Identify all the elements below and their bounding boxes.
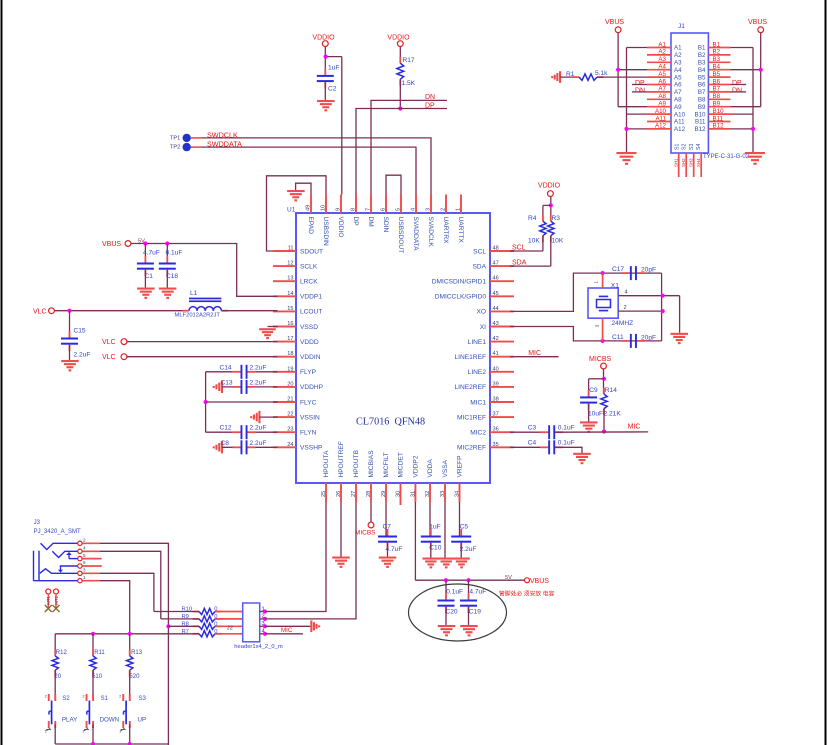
svg-text:VDDA: VDDA [427, 459, 434, 478]
svg-text:C3: C3 [528, 425, 537, 432]
connector J3 designator [34, 520, 81, 535]
capacitor C9 10uF [580, 387, 603, 418]
resistor R11 510 [90, 649, 106, 680]
svg-text:SCL: SCL [512, 245, 526, 252]
wire C1 to ground [144, 270, 146, 288]
svg-text:VDDIO: VDDIO [337, 217, 344, 238]
svg-text:SCLK: SCLK [300, 263, 318, 270]
power port MICBS [589, 356, 612, 369]
svg-text:3: 3 [83, 568, 86, 573]
power port VBUS (rail) [525, 578, 550, 585]
junction A4/VBUS [616, 68, 620, 72]
highlight ellipse around C19 C20 [409, 584, 507, 641]
svg-text:34: 34 [455, 491, 461, 497]
svg-text:L1: L1 [190, 290, 198, 297]
svg-text:CL7016 QFN48: CL7016 QFN48 [356, 417, 425, 428]
connector J1 part text TYPE-C-31-G-02 [703, 154, 750, 160]
svg-text:5: 5 [83, 553, 86, 558]
svg-text:B10: B10 [694, 111, 706, 118]
wire J3 pin1 stub [83, 580, 101, 582]
wire jack pin1 to rail [100, 581, 130, 634]
ground (C20) [438, 625, 456, 636]
wire pin 26 to ground [340, 502, 342, 557]
junction C19/rail [466, 578, 470, 582]
svg-text:B12: B12 [694, 126, 706, 133]
ground (C7) [379, 557, 397, 568]
wire MIC2 to C3 [510, 431, 548, 433]
svg-text:DP: DP [352, 217, 359, 227]
svg-text:24: 24 [287, 442, 293, 448]
wire C18 stem [166, 244, 168, 264]
svg-text:4.7uF: 4.7uF [469, 588, 486, 595]
net label SCL [512, 245, 526, 252]
svg-text:A10: A10 [655, 108, 667, 115]
svg-text:1: 1 [45, 730, 47, 734]
svg-text:VDDP2: VDDP2 [413, 455, 420, 477]
chip bottom pins 25-34 with numbers and names [321, 441, 464, 502]
svg-text:VDDIO: VDDIO [538, 183, 561, 190]
wire XO to crystal loop [510, 273, 662, 311]
wire jack pin2 to gnd column [100, 543, 168, 626]
ground (C13) [213, 381, 223, 393]
junction VDDIO/pin9 [324, 55, 328, 59]
svg-text:A11: A11 [655, 115, 666, 122]
connector J3 jack body [34, 551, 78, 581]
wire pin5-pin6 link [386, 175, 401, 194]
svg-text:A12: A12 [655, 123, 667, 130]
capacitor C5 2.2uF [451, 524, 476, 554]
wire A1-A10-A12 ground bus [627, 48, 648, 153]
svg-text:R17: R17 [403, 57, 415, 64]
wire jack pin3 to R10 [100, 573, 154, 611]
svg-text:10K: 10K [552, 238, 564, 245]
net label 5V [138, 239, 145, 245]
svg-text:2: 2 [83, 538, 86, 543]
wire R9 row [161, 618, 199, 620]
svg-text:14: 14 [287, 291, 293, 297]
wire C20 to ground [445, 607, 447, 626]
net label DP (J1 left) [635, 80, 645, 87]
svg-text:DP: DP [732, 80, 742, 87]
svg-text:B12: B12 [713, 123, 725, 130]
svg-text:B5: B5 [698, 74, 706, 81]
junction B12/gnd bus [751, 127, 755, 131]
svg-text:S4: S4 [696, 144, 702, 150]
svg-text:1uF: 1uF [328, 65, 339, 72]
wire A6 DP [632, 84, 647, 86]
wire C1 stem [144, 244, 146, 264]
junction MICBS/C9 [602, 377, 606, 381]
resistor R12 20 [52, 649, 67, 680]
svg-text:HPOUTA: HPOUTA [323, 450, 330, 478]
wire LINE1REF [510, 356, 559, 358]
svg-text:DM: DM [367, 217, 374, 227]
wire C20 stem [445, 580, 447, 600]
svg-text:2.2uF: 2.2uF [460, 546, 477, 553]
svg-text:MICBS: MICBS [589, 356, 612, 363]
wire pin 9 VDDIO drop [341, 57, 343, 195]
wire R17 to DP [399, 79, 401, 108]
svg-text:SDA: SDA [472, 263, 486, 270]
connector J1 inside pin names A1-A12 B1-B12 S1-S4 [674, 45, 706, 150]
ground (C10) [423, 558, 440, 569]
svg-text:DP: DP [635, 80, 645, 87]
svg-text:B11: B11 [695, 119, 706, 126]
svg-text:MIC: MIC [628, 424, 641, 431]
ground (C5) [453, 558, 470, 569]
svg-text:HPOUTB: HPOUTB [353, 449, 360, 477]
capacitor C7 4.7uF [378, 524, 402, 554]
svg-text:5: 5 [396, 208, 402, 211]
junction C1/5V [143, 241, 147, 245]
svg-text:1uF: 1uF [429, 523, 440, 530]
connector J3 contact (pin4) with switch arrow [52, 551, 77, 558]
svg-text:9: 9 [336, 208, 342, 211]
wire J2 pin4 MIC stub [265, 633, 303, 635]
svg-text:17: 17 [287, 336, 293, 342]
svg-text:管脚处必 须安放 电容: 管脚处必 须安放 电容 [499, 590, 555, 598]
wire C9 to ground [588, 404, 590, 422]
wire J3 pin4 stub [83, 550, 101, 552]
power port VLC (main) [33, 308, 54, 315]
svg-text:2.21K: 2.21K [604, 411, 622, 418]
wire C12 row [206, 431, 278, 433]
net label 5V (rail) [505, 575, 512, 581]
net label SDA [512, 260, 527, 267]
wire C4 to ground [555, 447, 582, 453]
power port VLC (pin18) [102, 354, 127, 361]
wire B6 DP [731, 84, 747, 86]
svg-text:A2: A2 [658, 49, 666, 56]
svg-text:A8: A8 [658, 93, 666, 100]
svg-text:10uF: 10uF [588, 411, 603, 418]
power port VBUS (J1 left) [605, 19, 624, 33]
svg-text:VREFP: VREFP [457, 455, 464, 478]
wire MIC2REF to C4 [510, 446, 548, 448]
svg-text:LINE2REF: LINE2REF [454, 384, 486, 391]
wire J2 pin3 to ground [265, 625, 310, 627]
svg-text:B6: B6 [713, 78, 721, 85]
wire VBUS-A4-A9 [618, 33, 647, 107]
net label MIC (LINE1REF) [528, 350, 541, 357]
ground (C19) [460, 625, 478, 636]
wire SWDCLK [191, 138, 431, 195]
wire L1 to pin 15 [221, 310, 277, 312]
svg-text:1.5K: 1.5K [402, 80, 416, 87]
wire VDDIO to C2 [325, 47, 342, 76]
capacitor C15 2.2uF [61, 328, 90, 359]
power port VLC (pin17) [102, 339, 127, 346]
svg-text:45: 45 [493, 291, 499, 297]
power port VBUS (J1 right) [748, 19, 767, 33]
connector J2 header1x4 [227, 603, 283, 650]
svg-text:B3: B3 [713, 56, 721, 63]
junction crystal bottom [601, 339, 605, 343]
svg-text:VLC: VLC [102, 354, 116, 361]
wire R10 row [154, 611, 199, 613]
junction R17/DP [398, 106, 402, 110]
svg-text:J2: J2 [227, 625, 233, 631]
svg-text:4: 4 [83, 546, 86, 551]
crystal X1 24MHZ [588, 273, 633, 341]
op-amp U1 CL7016 chip body [287, 207, 490, 484]
svg-text:31: 31 [410, 491, 416, 497]
switch S2 PLAY [45, 670, 78, 744]
wire crystal pin 2 [618, 305, 662, 311]
connector J3 contact (pin6) with switch arrow [58, 566, 78, 573]
wire pin 30 stub end [400, 502, 402, 505]
svg-text:MIC2REF: MIC2REF [457, 445, 486, 452]
svg-text:LINE2: LINE2 [468, 369, 487, 376]
wire VLC to pin 18 [127, 356, 278, 358]
svg-text:VSSD: VSSD [300, 324, 318, 331]
ground (C8) [213, 441, 223, 453]
svg-text:S1: S1 [675, 144, 681, 150]
net label SWDDATA [207, 140, 242, 149]
svg-text:C20: C20 [446, 609, 458, 616]
capacitor C4 0.1uF [528, 440, 575, 455]
svg-text:A8: A8 [674, 97, 682, 104]
svg-text:HPOUTREF: HPOUTREF [338, 441, 345, 477]
svg-text:S1: S1 [101, 696, 109, 702]
switch S3 UP [119, 670, 146, 744]
junction C18/5V [165, 241, 169, 245]
svg-text:1: 1 [593, 281, 598, 284]
wire pin22 stub [260, 416, 278, 418]
svg-text:TP2: TP2 [170, 145, 180, 151]
wire VDDIO to R17 [399, 47, 401, 64]
svg-text:MICDET: MICDET [398, 452, 405, 477]
svg-text:33: 33 [440, 491, 446, 497]
svg-text:48: 48 [493, 246, 499, 252]
svg-text:37: 37 [493, 412, 499, 418]
svg-text:510: 510 [92, 674, 103, 680]
svg-text:C13: C13 [221, 379, 233, 386]
svg-text:MICFILT: MICFILT [383, 452, 390, 477]
svg-text:5V: 5V [505, 575, 512, 581]
wire XI to crystal loop [510, 327, 662, 341]
wire C15 stem [69, 311, 71, 339]
svg-text:6: 6 [83, 560, 86, 565]
wire C13 row [222, 386, 278, 388]
svg-text:TYPE-C-31-G-02: TYPE-C-31-G-02 [703, 154, 750, 160]
svg-text:B4: B4 [698, 67, 706, 74]
svg-text:47: 47 [493, 261, 499, 267]
resistor R13 520 [126, 649, 142, 680]
svg-text:VSSA: VSSA [442, 459, 449, 477]
svg-text:B10: B10 [713, 108, 725, 115]
resistor R4 10K [528, 215, 546, 245]
junction rail/R13/jack pin1 [128, 632, 132, 636]
wire C2 to ground [324, 82, 326, 100]
svg-text:B6: B6 [698, 82, 706, 89]
svg-text:0.1uF: 0.1uF [166, 250, 183, 257]
svg-text:SDA: SDA [512, 260, 527, 267]
svg-text:MT1: MT1 [46, 595, 51, 604]
svg-text:VBUS: VBUS [102, 241, 121, 248]
svg-text:C19: C19 [469, 609, 481, 616]
svg-text:SH1: SH1 [674, 158, 679, 167]
wire J3 pin6 stub [83, 565, 102, 567]
svg-text:0.1uF: 0.1uF [558, 440, 575, 447]
ground (pin33) [438, 558, 455, 569]
svg-text:S2: S2 [682, 144, 688, 150]
wire VLC to L1 [55, 310, 190, 312]
svg-text:R4: R4 [528, 215, 537, 222]
svg-text:SDOUT: SDOUT [300, 248, 323, 255]
svg-text:J1: J1 [678, 23, 685, 30]
connector J1 outside pin stubs and labels [647, 41, 731, 129]
svg-text:2.2uF: 2.2uF [250, 364, 267, 371]
svg-text:PJ_3420_A_SMT: PJ_3420_A_SMT [34, 529, 81, 535]
svg-text:XI: XI [480, 324, 486, 331]
svg-text:A4: A4 [658, 64, 666, 71]
resistors R10 R9 R8 R7 (0 ohm) [182, 607, 243, 637]
wire C5 to ground [460, 543, 462, 558]
svg-text:C8: C8 [221, 440, 230, 447]
svg-text:4: 4 [411, 208, 417, 211]
svg-text:MIC1REF: MIC1REF [457, 414, 486, 421]
wire pin 29 to C7 [385, 502, 387, 536]
capacitor C19 4.7uF [460, 588, 486, 615]
connector J1 body [671, 23, 708, 153]
wire pin 34 to C5 [459, 502, 461, 536]
svg-text:1: 1 [119, 730, 121, 734]
svg-text:VDDIN: VDDIN [300, 354, 321, 361]
svg-text:B11: B11 [713, 115, 724, 122]
ground (crystal) [671, 333, 689, 344]
wire C19 to ground [468, 607, 470, 626]
svg-text:VBUS: VBUS [748, 19, 767, 26]
ground (R1) [551, 71, 561, 83]
svg-text:VLC: VLC [102, 339, 116, 346]
svg-text:MIC: MIC [528, 350, 541, 357]
svg-text:23: 23 [287, 427, 293, 433]
wire R3 to SDA [510, 236, 551, 266]
svg-text:B5: B5 [713, 71, 721, 78]
svg-text:A6: A6 [658, 78, 666, 85]
wire SWDDATA [191, 147, 416, 194]
wire DN (pin7 to label) [371, 100, 447, 194]
svg-text:VDDHP: VDDHP [300, 384, 324, 391]
svg-text:MLF2012A2R2JT: MLF2012A2R2JT [175, 313, 221, 319]
svg-text:S3: S3 [689, 144, 695, 150]
junction pin2/right vertical [661, 309, 665, 313]
svg-text:41: 41 [493, 351, 499, 357]
svg-text:LCOUT: LCOUT [300, 309, 322, 316]
svg-text:MICBIAS: MICBIAS [368, 450, 375, 478]
junction FLYC bus [204, 400, 208, 404]
svg-text:20pF: 20pF [641, 267, 656, 274]
wire R11 top [92, 634, 94, 656]
svg-text:R12: R12 [56, 650, 68, 656]
junction bottom rail S3 [128, 742, 132, 745]
wire rail row (R7/MIC) [55, 633, 199, 635]
svg-text:30: 30 [396, 491, 402, 497]
svg-text:C5: C5 [460, 524, 469, 531]
svg-text:12: 12 [287, 261, 293, 267]
ground (C2) [317, 100, 335, 111]
svg-text:44: 44 [493, 306, 499, 312]
svg-text:1: 1 [83, 575, 86, 580]
svg-text:S2: S2 [62, 696, 70, 702]
svg-text:49: 49 [306, 205, 312, 211]
svg-text:MICBS: MICBS [355, 529, 376, 536]
svg-text:UP: UP [138, 717, 147, 724]
svg-text:FLYP: FLYP [300, 369, 317, 376]
junction B4/VBUS [759, 68, 763, 72]
power port VDDIO (C2 branch) [312, 35, 335, 47]
svg-text:DOWN: DOWN [100, 717, 120, 724]
svg-text:40: 40 [493, 366, 499, 372]
ground (J2 pin3) [310, 620, 320, 632]
svg-text:A12: A12 [674, 126, 686, 133]
inductor L1 MLF2012A2R2JT [175, 290, 228, 319]
connector J3 contact (pin5) [69, 558, 78, 560]
svg-text:28: 28 [366, 491, 372, 497]
border frame right [825, 0, 827, 745]
wire J2 pin1 to chip pin25 [265, 502, 326, 612]
wire VDDIO to R4 [543, 205, 551, 221]
capacitor C18 0.1uF [159, 250, 183, 281]
wire C8 row [222, 446, 278, 448]
wire FLYC pin 21 [206, 401, 278, 403]
svg-text:UARTTX: UARTTX [457, 217, 464, 244]
svg-text:2: 2 [45, 695, 47, 699]
svg-text:16: 16 [287, 321, 293, 327]
svg-text:R3: R3 [552, 215, 561, 222]
capacitor C11 20pF [612, 334, 656, 348]
mount MT2 [53, 589, 60, 612]
ground (C1) [137, 288, 155, 299]
svg-text:B8: B8 [713, 93, 721, 100]
wire C10 to ground [430, 543, 432, 558]
wire J3 pin5 stub [83, 558, 102, 560]
svg-text:SVADCLK: SVADCLK [427, 217, 434, 248]
capacitor C20 0.1uF [438, 588, 464, 615]
svg-text:7: 7 [366, 208, 372, 211]
power port VDDIO (R17 branch) [387, 35, 410, 47]
test point TP2 [170, 143, 191, 151]
svg-text:A4: A4 [674, 67, 682, 74]
capacitor C13 2.2uF [221, 379, 267, 394]
svg-text:25: 25 [321, 491, 327, 497]
svg-text:R14: R14 [605, 387, 617, 394]
resistor R17 1.5K [397, 57, 416, 87]
svg-text:MIC1: MIC1 [470, 399, 486, 406]
ground (J1 right) [745, 152, 765, 165]
capacitor C10 1uF [421, 523, 442, 551]
svg-text:35: 35 [493, 442, 499, 448]
svg-text:4: 4 [625, 290, 628, 296]
ground (C15) [61, 360, 78, 371]
chip top pins 1-10,49 with numbers and names [306, 195, 464, 254]
net label DN (J1 right) [732, 88, 742, 95]
svg-text:29: 29 [381, 491, 387, 497]
junction R14/MIC [602, 429, 606, 433]
chip right pins 35-48 with numbers and names [432, 246, 514, 452]
svg-text:2: 2 [441, 208, 447, 211]
wire EPAD to ground [296, 183, 311, 194]
svg-text:36: 36 [493, 427, 499, 433]
net label DP (J1 right) [732, 80, 742, 87]
svg-text:SVADDATA: SVADDATA [412, 217, 419, 252]
wire pin 16 to ground [268, 326, 278, 328]
capacitor C14 2.2uF [220, 364, 267, 379]
wire MICBS to C9 [589, 379, 604, 398]
svg-text:1: 1 [82, 730, 84, 734]
resistor R3 10K [548, 215, 564, 245]
